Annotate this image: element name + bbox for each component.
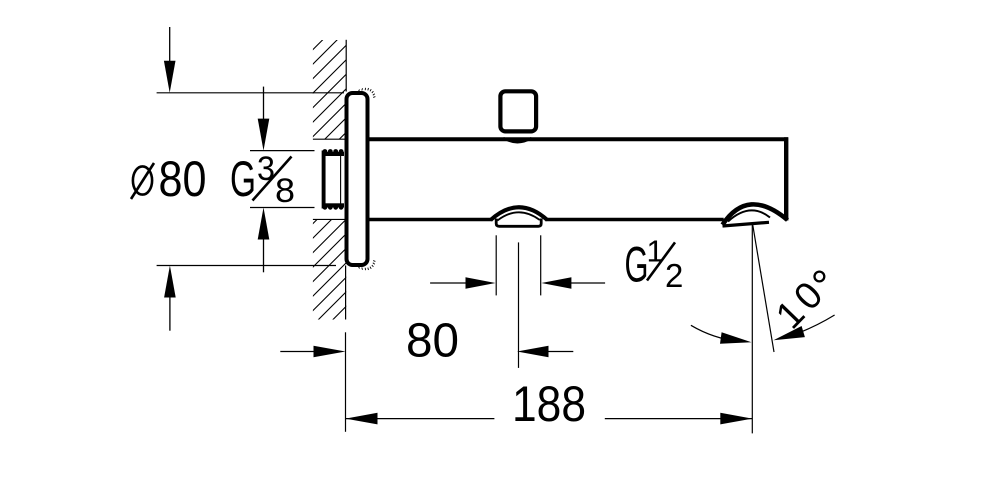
- flange knurl fuzz top-right: [359, 88, 376, 98]
- dim Ø80 top arrow: [169, 27, 171, 62]
- dim Ø80 bottom extension line: [157, 265, 336, 267]
- spout outlet inner arc: [728, 210, 770, 221]
- angle arc left arrowhead: [720, 332, 752, 344]
- dim Ø80 top extension line: [157, 92, 344, 94]
- dim 188 line right: [605, 418, 753, 420]
- svg-text:80: 80: [159, 151, 207, 207]
- aerator dome: [491, 207, 548, 220]
- label G1/2: [625, 234, 684, 295]
- dim 188 left arrowhead: [346, 413, 378, 425]
- wall face line lower: [345, 266, 347, 320]
- wall hole boundary top: [313, 138, 345, 140]
- wall flange: [347, 93, 368, 265]
- svg-text:G: G: [625, 237, 649, 293]
- angle arc right: [799, 315, 834, 333]
- dim G3/8 top arrow: [263, 87, 265, 120]
- wall hatch upper: [313, 40, 346, 139]
- dim G1/2 left arrow: [430, 282, 466, 284]
- dim G3/8 top extension line: [250, 150, 315, 152]
- thread nipple G3/8: [322, 149, 344, 210]
- flange knurl fuzz bottom-right: [359, 261, 376, 271]
- dim 188 right arrowhead: [720, 413, 752, 425]
- dim 188 right extension line: [751, 224, 753, 434]
- dim 188 line left: [346, 418, 495, 420]
- spout body top line: [367, 137, 788, 141]
- svg-text:2: 2: [665, 257, 683, 294]
- spout body bottom line left segment: [367, 218, 493, 221]
- angle 10 slant line: [753, 224, 775, 353]
- svg-text:80: 80: [406, 315, 459, 368]
- spout outlet lip outer arc: [723, 204, 788, 224]
- dim Ø80 bottom arrow: [169, 297, 171, 331]
- dim 80 left arrow: [280, 351, 315, 353]
- spout outlet cut line: [723, 222, 770, 226]
- spout body right edge: [784, 137, 788, 220]
- spout body bottom line right segment: [546, 218, 724, 221]
- aerator cup G1/2 outlet: [496, 219, 541, 227]
- aerator center extension line: [518, 242, 520, 368]
- aerator dome inner line: [497, 212, 539, 220]
- dim 188 left extension line: [345, 332, 347, 432]
- aerator right extension line: [540, 235, 542, 295]
- aerator left extension line: [495, 235, 497, 295]
- dim 80 right arrow: [547, 351, 573, 353]
- knob base fillet arc: [503, 138, 531, 142]
- dim G3/8 bottom extension line: [250, 207, 315, 209]
- label G3/8: [230, 150, 295, 210]
- wall hole boundary bottom: [313, 218, 345, 220]
- svg-text:8: 8: [275, 172, 295, 210]
- diverter knob on top: [500, 91, 536, 131]
- dim Ø80 text: [131, 151, 207, 207]
- angle arc right arrowhead: [774, 326, 805, 340]
- wall hatch lower: [313, 219, 346, 320]
- svg-text:3: 3: [257, 150, 275, 188]
- dim G3/8 bottom arrow: [263, 239, 265, 272]
- svg-text:188: 188: [512, 376, 586, 432]
- svg-text:G: G: [230, 151, 256, 207]
- angle arc left: [691, 325, 740, 341]
- dim G1/2 right arrow: [571, 282, 605, 284]
- wall face line upper: [345, 40, 347, 92]
